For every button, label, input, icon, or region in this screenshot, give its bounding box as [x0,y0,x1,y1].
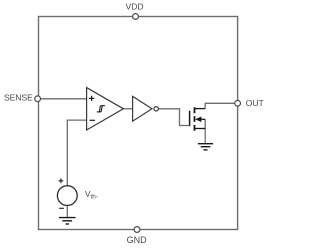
svg-text:OUT: OUT [246,98,264,108]
svg-text:GND: GND [127,235,148,245]
svg-text:SENSE: SENSE [4,92,33,102]
svg-text:Vth-: Vth- [85,190,98,200]
svg-text:VDD: VDD [126,2,144,12]
